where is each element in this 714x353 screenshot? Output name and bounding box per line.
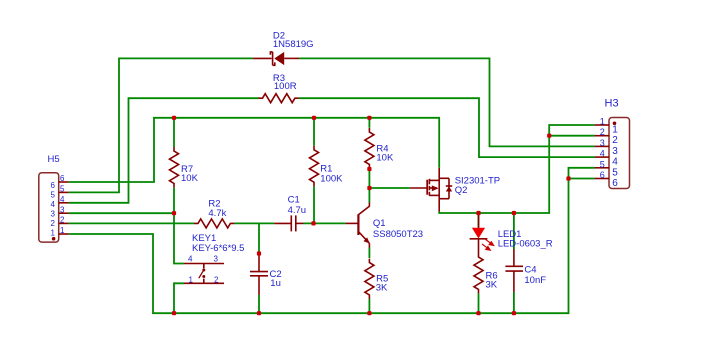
svg-text:2: 2 bbox=[612, 135, 618, 146]
svg-text:5: 5 bbox=[600, 159, 605, 169]
svg-text:1: 1 bbox=[51, 229, 56, 238]
svg-text:2: 2 bbox=[60, 216, 65, 225]
svg-text:1: 1 bbox=[60, 226, 65, 235]
svg-text:3: 3 bbox=[60, 205, 65, 214]
svg-text:3: 3 bbox=[51, 210, 56, 219]
svg-text:LED-0603_R: LED-0603_R bbox=[498, 238, 553, 249]
svg-text:6: 6 bbox=[600, 170, 605, 180]
svg-text:1N5819G: 1N5819G bbox=[273, 39, 314, 50]
svg-text:4: 4 bbox=[612, 157, 618, 168]
svg-text:100K: 100K bbox=[320, 173, 343, 184]
svg-text:6: 6 bbox=[51, 181, 56, 190]
svg-text:H3: H3 bbox=[605, 97, 619, 109]
svg-text:H5: H5 bbox=[48, 154, 60, 165]
svg-text:3: 3 bbox=[600, 138, 605, 148]
svg-text:6: 6 bbox=[60, 174, 65, 183]
svg-text:2: 2 bbox=[214, 276, 219, 285]
svg-text:10nF: 10nF bbox=[524, 275, 546, 286]
svg-text:1: 1 bbox=[612, 125, 618, 136]
svg-text:2: 2 bbox=[600, 127, 605, 137]
svg-text:4: 4 bbox=[600, 149, 605, 159]
svg-text:1: 1 bbox=[189, 276, 194, 285]
svg-text:4: 4 bbox=[60, 195, 65, 204]
svg-text:3K: 3K bbox=[486, 280, 498, 291]
svg-text:4: 4 bbox=[188, 255, 193, 264]
svg-text:4.7u: 4.7u bbox=[288, 205, 307, 216]
svg-text:10K: 10K bbox=[376, 153, 394, 164]
svg-text:1: 1 bbox=[600, 117, 605, 127]
svg-text:6: 6 bbox=[612, 178, 618, 189]
svg-text:3: 3 bbox=[214, 255, 219, 264]
svg-text:10K: 10K bbox=[181, 173, 199, 184]
svg-text:4: 4 bbox=[51, 200, 56, 209]
svg-text:100R: 100R bbox=[274, 81, 297, 92]
svg-text:3K: 3K bbox=[376, 282, 388, 293]
svg-text:1u: 1u bbox=[270, 278, 281, 289]
svg-text:2: 2 bbox=[51, 219, 56, 228]
svg-text:SS8050T23: SS8050T23 bbox=[373, 229, 423, 240]
svg-text:5: 5 bbox=[60, 185, 65, 194]
svg-text:5: 5 bbox=[612, 167, 618, 178]
svg-text:3: 3 bbox=[612, 146, 618, 157]
svg-text:Q1: Q1 bbox=[373, 218, 386, 229]
svg-text:KEY-6*6*9.5: KEY-6*6*9.5 bbox=[192, 243, 244, 254]
svg-text:4.7k: 4.7k bbox=[208, 208, 226, 219]
svg-text:Q2: Q2 bbox=[455, 185, 468, 196]
svg-text:C1: C1 bbox=[288, 195, 300, 206]
svg-text:5: 5 bbox=[51, 191, 56, 200]
svg-text:C4: C4 bbox=[524, 265, 536, 276]
